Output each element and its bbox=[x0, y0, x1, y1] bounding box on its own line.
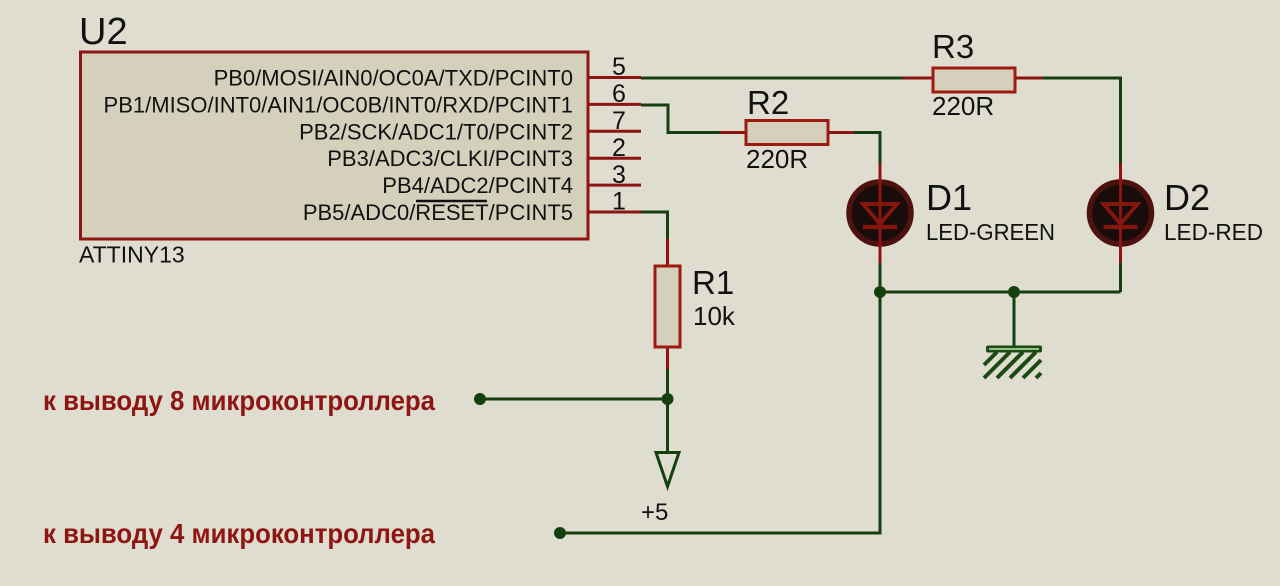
svg-text:7: 7 bbox=[612, 107, 626, 135]
svg-text:к выводу 8 микроконтроллера: к выводу 8 микроконтроллера bbox=[43, 385, 435, 416]
svg-text:220R: 220R bbox=[746, 144, 808, 174]
svg-text:ATTINY13: ATTINY13 bbox=[79, 242, 185, 268]
svg-text:PB5/ADC0/RESET/PCINT5: PB5/ADC0/RESET/PCINT5 bbox=[303, 200, 573, 225]
svg-text:2: 2 bbox=[612, 134, 626, 162]
svg-text:6: 6 bbox=[612, 80, 626, 108]
svg-text:PB0/MOSI/AIN0/OC0A/TXD/PCINT0: PB0/MOSI/AIN0/OC0A/TXD/PCINT0 bbox=[214, 66, 573, 91]
svg-text:220R: 220R bbox=[932, 91, 994, 121]
svg-text:D2: D2 bbox=[1164, 177, 1210, 218]
svg-text:R3: R3 bbox=[932, 28, 974, 65]
svg-text:PB3/ADC3/CLKI/PCINT3: PB3/ADC3/CLKI/PCINT3 bbox=[327, 146, 573, 171]
svg-text:к выводу 4 микроконтроллера: к выводу 4 микроконтроллера bbox=[43, 518, 435, 549]
svg-text:PB1/MISO/INT0/AIN1/OC0B/INT0/R: PB1/MISO/INT0/AIN1/OC0B/INT0/RXD/PCINT1 bbox=[104, 92, 573, 117]
svg-text:R1: R1 bbox=[692, 264, 734, 301]
svg-text:R2: R2 bbox=[747, 84, 789, 121]
svg-text:D1: D1 bbox=[926, 177, 972, 218]
svg-text:LED-GREEN: LED-GREEN bbox=[926, 219, 1055, 245]
svg-text:U2: U2 bbox=[79, 11, 128, 53]
svg-text:5: 5 bbox=[612, 53, 626, 81]
svg-text:PB4/ADC2/PCINT4: PB4/ADC2/PCINT4 bbox=[382, 173, 573, 198]
svg-text:3: 3 bbox=[612, 161, 626, 189]
svg-text:LED-RED: LED-RED bbox=[1164, 219, 1263, 245]
svg-text:PB2/SCK/ADC1/T0/PCINT2: PB2/SCK/ADC1/T0/PCINT2 bbox=[299, 119, 573, 144]
svg-text:1: 1 bbox=[612, 188, 626, 216]
svg-text:10k: 10k bbox=[693, 301, 736, 331]
svg-text:+5: +5 bbox=[641, 499, 668, 526]
